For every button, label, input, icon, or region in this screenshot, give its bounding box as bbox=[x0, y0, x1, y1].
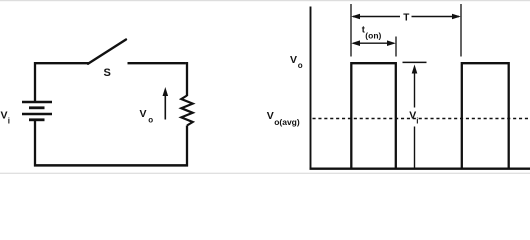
extension line (pulse2 left) bbox=[460, 4, 462, 57]
wire: top-right segment (switch throw to resistor top) bbox=[128, 62, 188, 96]
svg-text:V: V bbox=[1, 110, 8, 122]
wire: right-bottom segment (resistor bottom to corner) bbox=[186, 126, 188, 167]
dimension T (period) bbox=[351, 13, 461, 24]
svg-text:i: i bbox=[416, 117, 418, 126]
dimension t(on) bbox=[351, 25, 396, 47]
svg-text:S: S bbox=[104, 67, 111, 79]
svg-text:(on): (on) bbox=[365, 31, 381, 41]
Vi level tick bbox=[403, 61, 427, 63]
svg-text:o(avg): o(avg) bbox=[274, 117, 300, 127]
extension line (pulse1 left) bbox=[350, 4, 352, 57]
svg-text:T: T bbox=[403, 13, 409, 24]
dashed average line bbox=[313, 118, 530, 120]
label Vo with arrow (output across R) bbox=[140, 87, 169, 125]
svg-text:o: o bbox=[148, 116, 153, 125]
switch S (blade open) bbox=[88, 40, 126, 64]
bottom border rule bbox=[0, 173, 530, 174]
svg-text:i: i bbox=[8, 117, 10, 126]
svg-text:o: o bbox=[298, 61, 303, 70]
pulse 2 bbox=[462, 63, 509, 169]
svg-text:V: V bbox=[290, 54, 297, 66]
battery Vi (two cells) bbox=[22, 102, 52, 120]
wire: top-left segment (battery + to switch pole) bbox=[35, 63, 89, 101]
Vi measure arrow bbox=[412, 65, 418, 169]
y-axis bbox=[310, 7, 312, 169]
top border rule bbox=[0, 0, 530, 1]
svg-text:V: V bbox=[409, 110, 416, 122]
pulse 1 bbox=[351, 63, 396, 169]
wire: bottom segment bbox=[34, 164, 188, 167]
extension line (pulse1 right / t-on) bbox=[395, 37, 397, 57]
wire: left-bottom segment (battery - to corner) bbox=[34, 120, 36, 167]
x-axis baseline bbox=[310, 168, 530, 170]
svg-text:V: V bbox=[140, 108, 147, 120]
resistor R (load) zigzag bbox=[181, 96, 192, 126]
svg-text:V: V bbox=[267, 110, 274, 122]
